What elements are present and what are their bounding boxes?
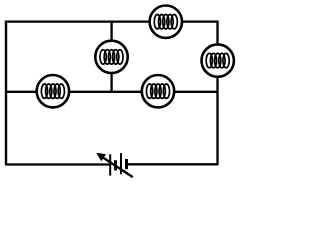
wire middle — [6, 91, 218, 93]
lamp L2 (vertical branch) — [95, 41, 127, 73]
wire bottom right — [127, 163, 218, 165]
battery BT1 plate short 1 — [114, 160, 117, 170]
lamp L5 (middle wire right) — [142, 75, 174, 107]
wire left — [5, 21, 7, 166]
battery BT1 plate short 2 — [125, 159, 128, 169]
variable-battery arrow head — [96, 153, 106, 162]
battery BT1 plate long 2 — [120, 153, 122, 174]
lamp L1 (top wire) — [150, 6, 182, 38]
wire bottom left — [6, 163, 110, 165]
lamp L4 (middle wire left) — [37, 75, 69, 107]
wire top — [5, 20, 219, 22]
wire branch vertical — [110, 22, 112, 92]
wire right — [216, 21, 218, 166]
lamp L3 (right wire) — [202, 44, 234, 76]
battery BT1 plate long 1 — [109, 154, 111, 175]
variable-battery arrow shaft — [101, 156, 133, 177]
